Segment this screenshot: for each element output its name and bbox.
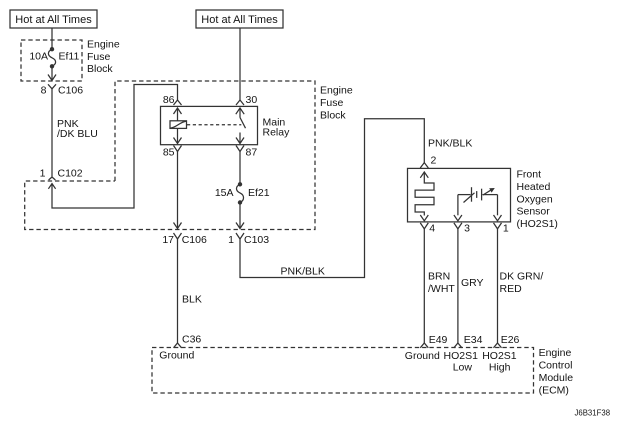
- wire from relay pin 85 down to C106 pin 17: [177, 152, 179, 229]
- svg-text:RED: RED: [500, 283, 523, 295]
- svg-text:BLK: BLK: [182, 294, 202, 306]
- svg-text:Engine: Engine: [87, 39, 120, 51]
- svg-text:2: 2: [431, 154, 437, 166]
- relay K1: Main Relay box: [161, 106, 258, 144]
- relay switch (right branch): [236, 108, 246, 144]
- up arrow into C102: [48, 184, 55, 189]
- svg-text:GRY: GRY: [461, 277, 484, 289]
- svg-text:Heated: Heated: [517, 181, 551, 193]
- fuse Ef21: [236, 182, 243, 205]
- ECM pin E49 chevron: [420, 343, 428, 348]
- sensor B: Front Heated Oxygen Sensor box: [408, 168, 511, 222]
- pin label HO2S1 High: [482, 350, 517, 374]
- label: Engine Fuse Block (main): [320, 85, 353, 122]
- connector C103 pin 1 (Y symbol): [236, 233, 244, 239]
- svg-text:C103: C103: [244, 234, 269, 246]
- svg-text:87: 87: [246, 146, 258, 158]
- svg-text:Engine: Engine: [320, 85, 353, 97]
- relay pin 30 chevron: [236, 100, 244, 105]
- svg-text:BRN: BRN: [428, 271, 450, 283]
- engine fuse block (upper) dashed outline: [21, 40, 82, 81]
- ECM dashed outline: [152, 348, 534, 394]
- wire from relay pin 87 to fuse Ef21: [239, 152, 241, 185]
- svg-text:HO2S1: HO2S1: [444, 350, 479, 362]
- svg-text:15A: 15A: [215, 187, 234, 199]
- svg-text:Low: Low: [453, 362, 473, 374]
- wire label DK GRN/ RED: [500, 271, 544, 295]
- svg-text:C106: C106: [58, 84, 83, 96]
- HO2S1 pin 3 Y connector: [454, 223, 462, 229]
- svg-text:Fuse: Fuse: [87, 51, 111, 63]
- svg-text:High: High: [489, 362, 511, 374]
- relay dashed actuation link: [187, 124, 241, 126]
- svg-text:E34: E34: [464, 334, 483, 346]
- svg-text:PNK/BLK: PNK/BLK: [281, 265, 325, 277]
- svg-text:4: 4: [429, 222, 435, 234]
- connector C106 pin 8 (Y symbol): [48, 84, 56, 89]
- svg-text:/DK BLU: /DK BLU: [57, 128, 98, 140]
- svg-text:Hot at All Times: Hot at All Times: [15, 14, 92, 26]
- svg-text:Engine: Engine: [539, 347, 572, 359]
- svg-text:/WHT: /WHT: [428, 283, 455, 295]
- svg-text:3: 3: [464, 222, 470, 234]
- HO2S1 pin 1 Y connector: [494, 223, 502, 229]
- svg-text:Oxygen: Oxygen: [517, 193, 553, 205]
- label Main Relay: [263, 117, 291, 139]
- relay pin 86 chevron: [174, 100, 182, 105]
- svg-text:85: 85: [163, 146, 175, 158]
- relay pin 87 Y connector: [236, 146, 244, 152]
- wire label PNK /DK BLU: [57, 118, 98, 140]
- wire + down arrow into connector C106 pin 8: [48, 66, 56, 80]
- label Engine Control Module (ECM): [539, 347, 574, 396]
- fuse Ef11: [48, 47, 55, 69]
- svg-text:Ground: Ground: [159, 350, 194, 362]
- wire label BRN /WHT: [428, 271, 455, 295]
- svg-text:1: 1: [40, 168, 46, 180]
- svg-text:DK GRN/: DK GRN/: [500, 271, 544, 283]
- svg-text:Relay: Relay: [263, 126, 291, 138]
- svg-text:1: 1: [503, 222, 509, 234]
- svg-text:Block: Block: [87, 63, 113, 75]
- wire BLK from C106 pin 17 to ECM C36: [177, 239, 179, 343]
- svg-text:8: 8: [41, 84, 47, 96]
- wire from fuse Ef21 down to C103 pin 1: [239, 203, 241, 229]
- svg-text:Ef11: Ef11: [59, 51, 80, 63]
- svg-text:Block: Block: [320, 110, 346, 122]
- power box B2: Hot at All Times (right): [196, 10, 283, 28]
- svg-text:Sensor: Sensor: [517, 206, 551, 218]
- svg-text:E26: E26: [501, 334, 520, 346]
- wire from relay pin 86 to connector C102: [52, 85, 178, 209]
- svg-text:1: 1: [228, 234, 234, 246]
- ECM pin E34 chevron: [454, 343, 462, 348]
- sensing cell (variable battery symbol inside HO2S1): [454, 187, 502, 221]
- svg-text:Hot at All Times: Hot at All Times: [201, 14, 278, 26]
- power box B1: Hot at All Times (left): [10, 10, 97, 28]
- svg-text:Fuse: Fuse: [320, 97, 344, 109]
- label Front Heated Oxygen Sensor (HO2S1): [517, 169, 558, 230]
- connector C106 pin 17 (Y symbol): [174, 233, 182, 239]
- svg-text:17: 17: [162, 234, 174, 246]
- relay pin 85 Y connector: [174, 146, 182, 152]
- svg-text:10A: 10A: [29, 51, 48, 63]
- label: Engine Fuse Block (upper): [87, 39, 120, 75]
- svg-text:PNK/BLK: PNK/BLK: [428, 138, 472, 150]
- svg-text:C36: C36: [182, 334, 201, 346]
- heater element (inside HO2S1): [415, 172, 434, 221]
- wire GRY from HO2S1 pin 3 to ECM E34: [457, 229, 459, 343]
- down arrow at C103 pin 1: [236, 223, 244, 229]
- svg-text:J6B31F38: J6B31F38: [575, 409, 611, 418]
- relay coil (left branch): [170, 108, 187, 144]
- svg-text:Ef21: Ef21: [248, 187, 270, 199]
- pin label HO2S1 Low: [444, 350, 479, 374]
- svg-text:(HO2S1): (HO2S1): [517, 218, 558, 230]
- svg-text:C106: C106: [182, 234, 207, 246]
- wire PNK/BLK from C103 to HO2S1 pin 2: [240, 119, 424, 278]
- svg-text:Front: Front: [517, 169, 542, 181]
- wire from B1 to fuse Ef11: [51, 28, 53, 49]
- down arrow at C106 pin 17: [174, 223, 182, 229]
- svg-text:Ground: Ground: [405, 350, 440, 362]
- svg-text:E49: E49: [429, 334, 448, 346]
- HO2S1 pin 4 Y connector: [420, 223, 428, 229]
- connector C102 pin 1 (chevron): [49, 177, 56, 180]
- wire from B2 to relay pin 30: [239, 28, 241, 100]
- engine fuse block (main) dashed outline: [25, 81, 315, 230]
- ECM pin C36 chevron: [174, 343, 182, 348]
- svg-text:HO2S1: HO2S1: [482, 350, 517, 362]
- svg-text:30: 30: [246, 94, 258, 106]
- svg-text:Module: Module: [539, 372, 574, 384]
- wire PNK/DK BLU from C106 to C102: [51, 89, 53, 177]
- wire DK GRN/RED from HO2S1 pin 1 to ECM E26: [497, 229, 499, 343]
- svg-text:(ECM): (ECM): [539, 385, 569, 397]
- svg-text:86: 86: [163, 94, 175, 106]
- HO2S1 pin 2 chevron: [420, 163, 428, 168]
- svg-text:C102: C102: [58, 168, 83, 180]
- wire BRN/WHT from HO2S1 pin 4 to ECM E49: [423, 229, 425, 343]
- ECM pin E26 chevron: [494, 343, 502, 348]
- svg-text:Control: Control: [539, 360, 573, 372]
